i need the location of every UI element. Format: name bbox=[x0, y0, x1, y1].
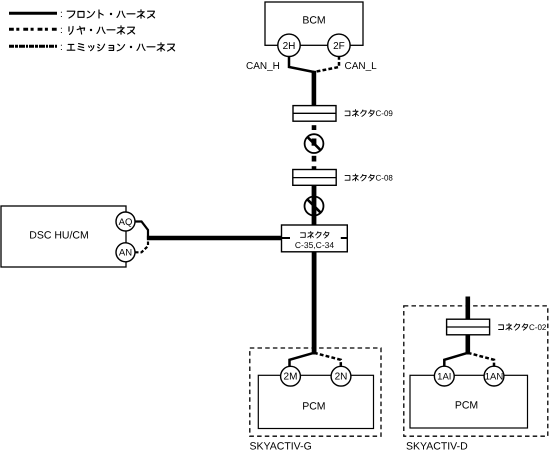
wire split to 2M (solid) bbox=[290, 353, 315, 367]
svg-text:DSC HU/CM: DSC HU/CM bbox=[29, 230, 89, 242]
terminal 2M bbox=[281, 366, 301, 386]
svg-text:C-02: C-02 bbox=[529, 323, 547, 332]
svg-text:PCM: PCM bbox=[302, 401, 325, 413]
wire 2H to junction (solid) bbox=[289, 50, 314, 72]
svg-text:BCM: BCM bbox=[302, 15, 325, 27]
wire C-08 to C-35 bbox=[312, 185, 317, 225]
wire C-09 to C-08 (rear harness dashes) bbox=[312, 125, 317, 169]
trunk wire C-35 to SKYACTIV-G split bbox=[312, 252, 317, 355]
svg-text::: : bbox=[60, 42, 63, 53]
svg-text:AN: AN bbox=[119, 248, 132, 259]
terminal 1AI bbox=[434, 366, 454, 386]
svg-text:C-35,C-34: C-35,C-34 bbox=[295, 240, 334, 250]
terminal 2H bbox=[278, 34, 300, 56]
wire split to 1AI (solid) bbox=[444, 353, 468, 367]
legend emission harness label エミッション・ハーネス bbox=[60, 42, 175, 53]
label コネクタC-02 bbox=[499, 323, 547, 332]
legend emission harness line sample bbox=[9, 45, 57, 48]
label コネクタC-09 bbox=[345, 109, 393, 118]
svg-text:C-08: C-08 bbox=[376, 174, 394, 183]
connector C-08 box bbox=[293, 170, 336, 186]
PCM box (SKYACTIV-D) bbox=[410, 375, 528, 428]
twisted pair symbol 1 bbox=[305, 134, 324, 153]
svg-text:2F: 2F bbox=[333, 41, 345, 52]
svg-text::: : bbox=[60, 9, 63, 20]
wire split to 2N (dashed) bbox=[314, 353, 341, 367]
label コネクタ (in box) bbox=[301, 231, 329, 238]
wire 2F to junction (dashed) bbox=[314, 50, 339, 72]
trunk wire DSC to C-35 bbox=[147, 236, 282, 240]
legend rear harness line sample bbox=[9, 28, 57, 31]
trunk wire C-02 to split bbox=[465, 335, 470, 355]
connector C-09 box bbox=[293, 106, 336, 122]
svg-text:2N: 2N bbox=[335, 372, 348, 383]
svg-text:CAN_L: CAN_L bbox=[345, 61, 378, 72]
svg-text:C-09: C-09 bbox=[376, 109, 394, 118]
svg-text:1AN: 1AN bbox=[485, 372, 504, 383]
legend front harness line sample bbox=[9, 12, 57, 15]
wire AQ to junction (solid) bbox=[135, 222, 148, 239]
svg-text:SKYACTIV-D: SKYACTIV-D bbox=[406, 440, 468, 452]
label コネクタC-08 bbox=[345, 174, 393, 183]
svg-text:CAN_H: CAN_H bbox=[246, 61, 280, 72]
svg-text:1AI: 1AI bbox=[437, 372, 451, 383]
BCM box bbox=[265, 2, 363, 45]
svg-text:2M: 2M bbox=[284, 372, 298, 383]
trunk wire stub SKYACTIV-D bbox=[465, 297, 470, 320]
SKYACTIV-G dashed enclosure bbox=[250, 348, 381, 436]
twisted pair symbol 2 bbox=[305, 197, 324, 216]
terminal AN bbox=[116, 243, 135, 262]
PCM box (SKYACTIV-G) bbox=[258, 375, 373, 428]
trunk wire junction to C-09 bbox=[312, 71, 317, 106]
DSC HU/CM box bbox=[1, 206, 126, 267]
terminal 1AN bbox=[484, 366, 504, 386]
svg-text:PCM: PCM bbox=[455, 400, 478, 412]
legend rear harness label リヤ・ハーネス bbox=[60, 25, 135, 36]
svg-text:2H: 2H bbox=[283, 41, 296, 52]
svg-text::: : bbox=[60, 25, 63, 36]
C-35 box right pin tick bbox=[341, 237, 348, 239]
terminal 2N bbox=[331, 366, 351, 386]
svg-text:SKYACTIV-G: SKYACTIV-G bbox=[250, 440, 312, 452]
C-35 box left pin tick bbox=[282, 237, 291, 239]
connector C-02 box bbox=[447, 319, 490, 335]
wire AN to junction (dashed) bbox=[135, 238, 148, 252]
svg-text:AQ: AQ bbox=[119, 217, 133, 228]
wire split to 1AN (dashed) bbox=[468, 353, 494, 366]
connector C-35,C-34 box bbox=[282, 225, 348, 252]
terminal AQ bbox=[116, 212, 135, 231]
terminal 2F bbox=[328, 34, 350, 56]
SKYACTIV-D dashed enclosure bbox=[404, 306, 548, 436]
legend front harness label フロント・ハーネス bbox=[60, 9, 155, 20]
